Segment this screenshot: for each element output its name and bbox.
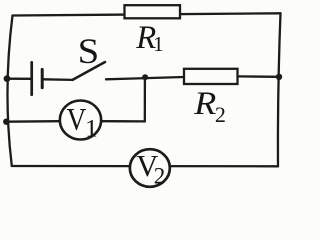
resistor R2 <box>184 69 238 84</box>
battery plate long <box>30 62 33 95</box>
wire R2 to right border <box>238 75 279 78</box>
svg-text:2: 2 <box>215 102 226 127</box>
node junction left V1 <box>3 119 9 125</box>
label R2 <box>193 86 226 127</box>
wire V1 to left border <box>6 120 59 123</box>
switch S blade <box>73 62 106 80</box>
svg-text:S: S <box>78 31 100 71</box>
battery plate short <box>41 69 44 87</box>
wire node down to voltmeter V1 <box>102 77 145 121</box>
wire left border <box>7 16 12 167</box>
wire battery left lead <box>7 78 31 80</box>
node junction right border <box>276 74 282 80</box>
node junction left battery <box>4 75 11 82</box>
svg-text:R: R <box>193 86 216 122</box>
svg-text:1: 1 <box>85 114 98 143</box>
svg-text:2: 2 <box>154 164 166 189</box>
resistor R1 <box>125 5 181 18</box>
wire switch contact to node <box>106 77 184 79</box>
label R1 <box>135 20 163 56</box>
svg-text:1: 1 <box>153 32 164 56</box>
wire right border <box>278 13 281 166</box>
wire top border <box>13 13 281 15</box>
svg-text:V: V <box>67 102 87 137</box>
node junction switch/R2/V1 <box>142 74 148 80</box>
voltmeter V2 <box>130 149 170 188</box>
wire battery to switch <box>44 78 73 81</box>
wire bottom border <box>12 165 278 168</box>
voltmeter V1 <box>60 101 101 143</box>
